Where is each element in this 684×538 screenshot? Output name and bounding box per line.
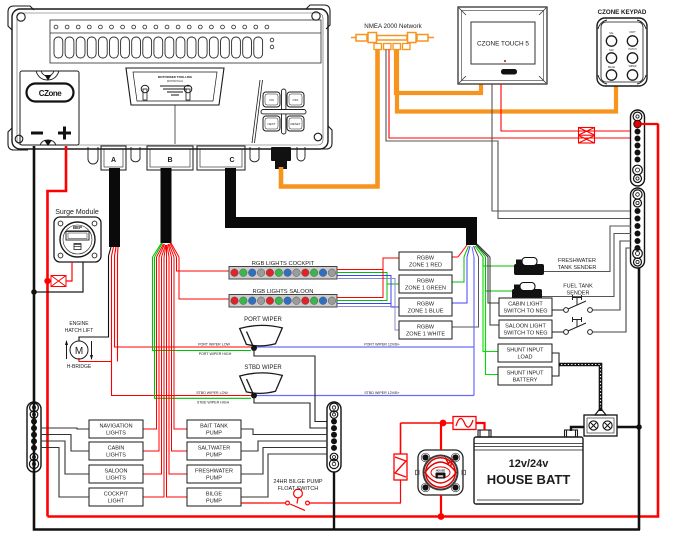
svg-text:SWITCH TO NEG: SWITCH TO NEG: [503, 331, 547, 337]
wire shunt load sense: [552, 353, 559, 365]
svg-text:LIGHT: LIGHT: [108, 499, 125, 505]
battery switch SW1: [416, 450, 466, 495]
svg-text:STBD WIPER LOW: STBD WIPER LOW: [196, 391, 228, 395]
freshwater pump box: [187, 465, 241, 483]
wire shunt sense pair: [559, 365, 601, 412]
svg-text:LIGHTS: LIGHTS: [106, 431, 126, 437]
rgbw zone 1 blue box: [399, 298, 452, 316]
wire shunt battery sense: [552, 365, 559, 377]
svg-text:CABIN: CABIN: [108, 446, 125, 452]
wire port wiper high: [153, 257, 252, 351]
svg-text:SWITCH TO NEG: SWITCH TO NEG: [503, 309, 547, 315]
svg-text:PORT WIPER LOW: PORT WIPER LOW: [198, 343, 230, 347]
cable A: [109, 168, 120, 247]
wire port wiper supply: [254, 346, 474, 348]
svg-text:ZONE 1 BLUE: ZONE 1 BLUE: [408, 309, 444, 315]
U1 buttons ON OFF NEXT RESET: [263, 92, 304, 131]
wire stbd wiper low: [112, 256, 252, 396]
touch display U2: [458, 7, 547, 84]
cable A fan: [109, 247, 119, 256]
cabin lights box: [89, 442, 143, 460]
svg-text:NAV: NAV: [609, 49, 614, 52]
wire fuse to battery positive: [476, 423, 485, 430]
wire fuel sender supply: [486, 257, 513, 291]
wire main negative from U1 minus: [34, 146, 640, 530]
wire negative right riser: [638, 268, 641, 530]
wire NMEA drop to touch display: [396, 50, 481, 94]
svg-text:SENDER: SENDER: [567, 291, 590, 297]
cable C: [231, 168, 472, 245]
svg-text:SALOON: SALOON: [105, 469, 128, 475]
wire positive junction run: [401, 422, 454, 424]
U1 arrow down: [44, 140, 52, 146]
wire switch top: [440, 423, 442, 450]
surge module SM1: [54, 217, 101, 262]
cable B: [161, 168, 172, 243]
U1 NMEA port P1: [271, 147, 291, 169]
U2 brand logo: [501, 69, 517, 75]
wire rgbw red out: [452, 256, 458, 258]
svg-text:NEXT: NEXT: [267, 122, 275, 126]
svg-text:FUEL TANK: FUEL TANK: [563, 284, 593, 290]
svg-text:ZONE 1 GREEN: ZONE 1 GREEN: [405, 286, 446, 292]
wire BB1 to main positive riser: [641, 123, 658, 125]
U1 CZone logo: [27, 84, 74, 102]
svg-text:SHUNT INPUT: SHUNT INPUT: [507, 371, 545, 377]
saloon light switch box: [499, 320, 552, 338]
BB1 feed stud red: [634, 120, 642, 128]
rgbw zone 1 green box: [399, 275, 452, 293]
svg-text:CABIN LIGHT: CABIN LIGHT: [508, 302, 543, 308]
svg-text:HOUSE: HOUSE: [436, 469, 446, 473]
wire NMEA drop to keypad: [397, 50, 616, 112]
svg-text:FLOAT SWITCH: FLOAT SWITCH: [278, 486, 318, 492]
wire saloon lights feed: [143, 257, 162, 474]
fuse F2 battery: [453, 417, 476, 430]
battery house: [474, 437, 583, 504]
port wiper motor: [240, 325, 283, 347]
wire NMEA power ground: [386, 50, 631, 219]
wire cockpit strip green return: [337, 273, 399, 285]
wire bilge float feed: [309, 480, 401, 503]
svg-text:RGBW: RGBW: [417, 302, 435, 308]
wire surge module positive: [66, 262, 72, 281]
wire touch display power red: [501, 84, 631, 131]
svg-text:M: M: [75, 346, 83, 357]
motor M1: [67, 341, 92, 359]
battery positive post: [478, 430, 491, 437]
U1 center divider line: [174, 105, 176, 144]
svg-text:STBD WIPER HIGH: STBD WIPER HIGH: [197, 401, 230, 405]
svg-text:PORT WIPER 12V/B+: PORT WIPER 12V/B+: [364, 343, 400, 347]
svg-text:CZone: CZone: [39, 89, 62, 98]
NMEA tee connectors: [374, 44, 410, 50]
battery negative post: [565, 430, 578, 437]
output interface module U1 body: [12, 9, 328, 149]
svg-text:COCKPIT: COCKPIT: [104, 492, 129, 498]
svg-text:SHUNT INPUT: SHUNT INPUT: [507, 348, 545, 354]
wire freshwater sender to BB2: [544, 226, 631, 272]
svg-text:RGBW: RGBW: [417, 279, 435, 285]
wire saloon strip blue return: [337, 304, 391, 308]
svg-text:NAVIGATION: NAVIGATION: [99, 424, 132, 430]
keypad buttons: [606, 36, 637, 80]
svg-text:CKPT: CKPT: [629, 31, 636, 34]
wire main positive from U1 plus: [48, 146, 67, 517]
svg-text:SALOON LIGHT: SALOON LIGHT: [505, 324, 546, 330]
svg-text:BATTERY: BATTERY: [513, 378, 538, 384]
cable C fan: [458, 244, 490, 257]
svg-text:NMEA 2000 Network: NMEA 2000 Network: [364, 23, 422, 30]
rgbw zone 1 red box: [399, 252, 452, 270]
svg-text:SALTWATER: SALTWATER: [198, 446, 231, 452]
svg-text:H-BRIDGE: H-BRIDGE: [67, 364, 92, 370]
node positive junction: [440, 420, 447, 427]
svg-text:ON: ON: [269, 98, 274, 102]
shunt input load box: [498, 344, 552, 362]
wire rgbw blue out: [452, 257, 467, 303]
wire cockpit strip red return: [337, 258, 399, 270]
svg-text:RGBW: RGBW: [417, 256, 435, 262]
bilge pump box: [187, 488, 241, 506]
svg-text:LIGHTS: LIGHTS: [106, 476, 126, 482]
wire cabin lights feed: [143, 257, 159, 451]
node shunt negative riser: [636, 424, 642, 430]
wire cockpit strip blue return: [337, 276, 399, 308]
wire shunt to battery negative: [571, 427, 584, 431]
negative busbar BB2: [631, 188, 645, 268]
svg-text:PORT WIPER: PORT WIPER: [244, 317, 282, 323]
U1 top vent strip: [50, 20, 321, 63]
saltwater pump box: [187, 442, 241, 460]
wire rgb saloon feed: [179, 257, 229, 299]
wire hatch motor return: [79, 358, 112, 362]
wire cockpit light ground: [41, 448, 90, 498]
U1 plus terminal: [58, 127, 71, 140]
svg-text:FRESHWATER: FRESHWATER: [195, 469, 233, 475]
svg-text:ZONE 1 RED: ZONE 1 RED: [409, 263, 442, 269]
wire navigation lights ground: [41, 428, 90, 429]
freshwater tank sender: [514, 258, 544, 276]
wire NMEA power red: [389, 50, 631, 139]
navigation lights box: [89, 420, 143, 438]
U1 mounting ear bottom-right: [310, 126, 332, 149]
svg-text:TANK SENDER: TANK SENDER: [558, 265, 597, 271]
stbd wiper motor: [240, 373, 283, 395]
wire port wiper ground: [254, 348, 328, 422]
U1 center connector: [126, 68, 224, 105]
svg-text:PUMP: PUMP: [206, 499, 222, 505]
wire rgb cockpit feed: [177, 257, 230, 271]
svg-text:FRESHWATER: FRESHWATER: [558, 258, 596, 264]
svg-text:MOTORISED TROLLING: MOTORISED TROLLING: [158, 75, 193, 79]
U1 mounting ear bottom-left: [8, 128, 28, 150]
wire saltwater pump ground: [241, 441, 328, 451]
wire port wiper low: [115, 256, 252, 347]
svg-text:LOAD: LOAD: [518, 355, 533, 361]
svg-text:RESET: RESET: [290, 122, 300, 126]
svg-text:12v/24v: 12v/24v: [509, 458, 550, 470]
svg-text:Surge Module: Surge Module: [55, 209, 99, 216]
rgb light strip saloon: [229, 295, 337, 308]
wire fuse to junction: [400, 423, 402, 454]
wire bait tank pump feed: [174, 257, 187, 429]
wire rgbw green out: [452, 257, 464, 282]
svg-text:RGBW: RGBW: [417, 325, 435, 331]
U1 small mounting tabs: [88, 147, 305, 164]
wire bilge pump ground: [241, 454, 328, 497]
wire saltwater pump feed: [172, 257, 188, 451]
switch S2 saloon: [552, 317, 592, 334]
U1 vent screw holes row: [54, 25, 274, 49]
svg-text:BEP: BEP: [73, 225, 82, 230]
wire cockpit light feed: [143, 257, 164, 497]
U1 mounting ear top-left: [8, 6, 34, 30]
fuse F4 surge: [48, 276, 67, 287]
wire cabin lights ground: [41, 435, 90, 452]
cockpit light box: [89, 488, 143, 506]
svg-text:HATCH: HATCH: [628, 48, 636, 51]
U1 minus terminal: [31, 132, 43, 135]
wire navigation lights feed: [143, 257, 157, 429]
svg-text:CZONE TOUCH 5: CZONE TOUCH 5: [477, 41, 529, 48]
svg-text:24HR BILGE PUMP: 24HR BILGE PUMP: [273, 479, 323, 485]
svg-text:STBD WIPER 12V/B+: STBD WIPER 12V/B+: [364, 391, 399, 395]
wire stbd wiper ground: [254, 396, 328, 429]
U1 connector B: [147, 146, 193, 170]
wire freshwater sender supply: [483, 257, 514, 266]
wire bait tank pump ground: [241, 429, 328, 435]
busbar BB3 left: [27, 402, 41, 472]
svg-text:LIGHTS: LIGHTS: [106, 453, 126, 459]
svg-text:HATCH LIFT: HATCH LIFT: [65, 328, 94, 334]
wire switch bottom: [440, 495, 442, 517]
saloon lights box: [89, 465, 143, 483]
positive busbar BB1: [631, 110, 645, 186]
svg-text:HOUSE BATT: HOUSE BATT: [487, 472, 571, 487]
U1 button cross: [261, 89, 306, 134]
fuse F3 bilge: [394, 454, 407, 480]
U1 vent slots: [54, 37, 263, 58]
wire stbd wiper supply: [254, 395, 474, 397]
U1 connector C: [197, 146, 245, 170]
svg-text:PORT WIPER HIGH: PORT WIPER HIGH: [199, 352, 232, 356]
wire shunt input load green: [483, 266, 498, 352]
rgb light strip cockpit: [229, 267, 337, 280]
fuel tank sender: [512, 283, 542, 301]
wire cockpit strip white return: [337, 279, 399, 331]
switch S1 cabin: [552, 295, 592, 312]
U1 connector A: [101, 146, 126, 170]
cable B fan: [153, 243, 180, 257]
wire hatch motor supply: [79, 256, 109, 341]
wire NMEA drop to U1 port: [281, 49, 378, 187]
svg-text:SAL: SAL: [609, 32, 614, 35]
shunt R1: [584, 415, 617, 436]
wire fuel sender to BB2: [542, 234, 631, 297]
svg-text:BILGE: BILGE: [608, 66, 615, 69]
svg-text:PUMP: PUMP: [206, 476, 222, 482]
svg-text:WIPER: WIPER: [629, 65, 637, 68]
wire hatch lift spare: [117, 256, 119, 362]
wire cabin switch in: [488, 257, 499, 303]
wire shunt to negative riser: [617, 426, 639, 428]
svg-text:B: B: [167, 157, 172, 164]
bait tank pump box: [187, 420, 241, 438]
svg-text:MOTOR PLUG: MOTOR PLUG: [167, 80, 183, 83]
U1 mounting ear top-right: [306, 5, 330, 29]
svg-text:BAIT TANK: BAIT TANK: [200, 424, 228, 430]
wire cabin switch to BB2: [593, 241, 632, 310]
svg-text:ZONE 1 WHITE: ZONE 1 WHITE: [406, 332, 445, 338]
svg-text:C: C: [229, 157, 234, 164]
wire saloon switch in: [490, 257, 499, 325]
wire saloon lights ground: [41, 441, 90, 474]
NMEA backbone: [351, 33, 434, 43]
U1 left badge panel: [20, 71, 79, 145]
cabin light switch box: [499, 298, 552, 316]
svg-text:BILGE: BILGE: [206, 492, 223, 498]
wire BB4 to ground bus: [333, 472, 335, 530]
U1 panel divider: [252, 80, 263, 143]
wire shunt input battery green: [486, 291, 499, 375]
node surge ground tap: [31, 289, 37, 295]
node surge positive tap: [44, 278, 50, 284]
wire freshwater pump ground: [241, 448, 328, 475]
svg-text:OFF: OFF: [293, 98, 299, 102]
svg-text:PUMP: PUMP: [206, 431, 222, 437]
wire surge module ground: [34, 262, 83, 292]
wire positive bottom bus: [48, 124, 659, 517]
svg-text:ENGINE: ENGINE: [69, 321, 89, 327]
wire saloon switch to BB2: [593, 248, 632, 332]
wire bilge pump feed: [167, 257, 188, 497]
wire rgbw white out: [452, 257, 479, 327]
wire stbd wiper high: [155, 257, 252, 398]
rgbw zone 1 white box: [399, 321, 452, 339]
wire bilge float to pump: [241, 502, 285, 504]
svg-text:STBD WIPER: STBD WIPER: [244, 365, 282, 371]
wire saloon strip white return: [337, 307, 395, 331]
svg-text:PUMP: PUMP: [206, 453, 222, 459]
wire saloon strip red return: [337, 270, 383, 298]
fuse F1: [579, 128, 595, 144]
wire saloon strip green return: [337, 284, 387, 301]
node switch to bus: [438, 513, 445, 520]
svg-text:A: A: [111, 157, 116, 164]
busbar BB4 mid: [327, 402, 341, 472]
keypad U3: [597, 18, 647, 86]
svg-text:CZONE KEYPAD: CZONE KEYPAD: [598, 9, 647, 16]
wire wiper supply blue: [473, 257, 475, 396]
float switch S3: [286, 489, 310, 510]
shunt input battery box: [498, 367, 552, 385]
wire touch display ground: [492, 84, 631, 211]
wire freshwater pump feed: [169, 257, 187, 474]
